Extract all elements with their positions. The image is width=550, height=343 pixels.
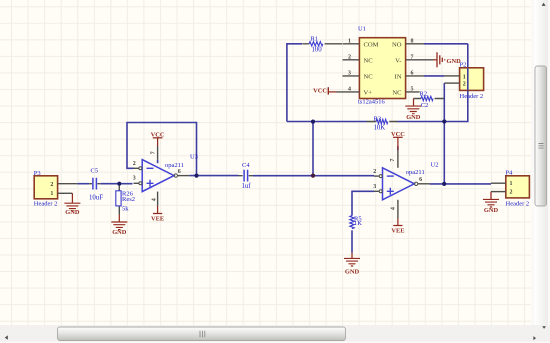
svg-text:C4: C4 (242, 162, 250, 169)
svg-text:Header 2: Header 2 (506, 200, 530, 207)
svg-text:VCC: VCC (313, 88, 327, 95)
svg-text:ts12a4516: ts12a4516 (358, 99, 385, 106)
svg-text:5: 5 (411, 87, 414, 93)
junction feedback net at x=444 (442, 119, 446, 123)
resistor R1 (302, 35, 342, 53)
svg-text:7: 7 (151, 151, 157, 154)
wire R5 bottom to GND (351, 230, 353, 252)
svg-text:GND: GND (484, 207, 499, 214)
svg-text:7: 7 (390, 159, 396, 162)
resistor R26 (116, 186, 135, 215)
scrollbar arrow left (5, 335, 8, 339)
wire feedback net y=122 right part (398, 44, 468, 122)
svg-text:6: 6 (178, 169, 181, 175)
bottom white strip (0, 342, 550, 343)
svg-text:R3: R3 (374, 115, 382, 122)
svg-text:1: 1 (50, 191, 53, 197)
svg-text:U3: U3 (190, 153, 198, 160)
svg-text:6: 6 (419, 177, 422, 183)
svg-text:U1: U1 (358, 26, 366, 33)
svg-text:2: 2 (373, 169, 376, 175)
svg-text:Header 2: Header 2 (460, 93, 484, 100)
svg-text:100: 100 (312, 47, 323, 54)
ground at R2 (405, 99, 428, 122)
resistor R3 (367, 115, 398, 131)
svg-text:NC: NC (392, 90, 402, 97)
svg-text:GND: GND (112, 229, 127, 236)
svg-text:R1: R1 (311, 35, 319, 42)
svg-text:IN: IN (395, 74, 402, 81)
horizontal scrollbar (0, 325, 550, 343)
svg-text:2: 2 (133, 161, 136, 167)
junction C5 R26 node (117, 182, 121, 186)
svg-text:2: 2 (348, 55, 351, 61)
power port VEE at U2 (391, 218, 404, 234)
svg-text:C5: C5 (91, 168, 99, 175)
svg-text:VCC: VCC (391, 131, 405, 138)
wire feedback net y=122 left part (287, 121, 367, 123)
op-amp U2 (373, 146, 438, 218)
svg-text:1K: 1K (354, 220, 362, 227)
wire U2 pin3 to R5 (352, 191, 374, 215)
svg-text:4: 4 (348, 87, 351, 93)
capacitor C5 (89, 168, 103, 202)
wire over P2 from pin8 vertical (467, 68, 469, 91)
svg-text:COM: COM (364, 42, 379, 49)
svg-text:2: 2 (510, 190, 513, 196)
svg-text:10K: 10K (374, 125, 386, 132)
svg-text:V-: V- (395, 58, 401, 65)
svg-text:VCC: VCC (151, 132, 165, 139)
header P4 (491, 170, 529, 208)
wire U2 output to P4 pin1 (430, 183, 491, 185)
svg-text:10uF: 10uF (89, 194, 103, 201)
svg-text:VEE: VEE (151, 216, 164, 223)
svg-text:1: 1 (510, 181, 513, 187)
svg-text:2: 2 (463, 81, 466, 87)
svg-text:GND: GND (406, 114, 421, 121)
wire vertical junction x=313 (312, 122, 314, 176)
svg-text:GND: GND (447, 58, 462, 65)
ground at R5 (344, 253, 360, 276)
wire P2 pin2 down through R2 to U2 output (443, 83, 445, 184)
resistor R2 (414, 90, 445, 100)
scrollbar arrow up (542, 3, 546, 6)
svg-text:4: 4 (390, 207, 396, 210)
junction U2 output (442, 182, 446, 186)
svg-text:1: 1 (463, 74, 466, 80)
svg-text:P4: P4 (506, 170, 514, 177)
capacitor C4 (239, 162, 254, 190)
wire U3 feedback loop (127, 123, 197, 176)
svg-text:NO: NO (392, 42, 402, 49)
power port VEE at U3 (151, 206, 164, 223)
ground at P4 pin2 (483, 192, 499, 215)
svg-text:6: 6 (411, 71, 414, 77)
scrollbar arrow down (542, 326, 546, 328)
svg-text:1uf: 1uf (242, 183, 252, 190)
svg-text:U2: U2 (431, 162, 439, 169)
junction U2 inverting input node (311, 174, 315, 178)
svg-text:3: 3 (348, 71, 351, 77)
wire input node left of R1 (287, 44, 302, 122)
svg-text:2: 2 (50, 182, 53, 188)
svg-text:7: 7 (411, 55, 414, 61)
op-amp U3 (133, 146, 198, 206)
svg-text:R2: R2 (420, 90, 428, 97)
scrollbar arrow right (533, 336, 536, 340)
header P3 (34, 170, 78, 207)
svg-text:Header 2: Header 2 (34, 201, 58, 208)
power port VCC at U3 (151, 132, 165, 147)
svg-text:V+: V+ (364, 90, 373, 97)
svg-text:C2: C2 (421, 102, 429, 109)
power port VCC at IC pin4 (313, 87, 336, 95)
power port GND at IC pin7 (rotated earth) (434, 52, 462, 67)
junction U3 output feedback (194, 174, 198, 178)
svg-text:1: 1 (348, 39, 351, 45)
vertical scrollbar (531, 0, 550, 325)
power port VCC at U2 (391, 131, 405, 150)
svg-text:opa211: opa211 (165, 162, 184, 169)
wire C4 to U2 pin2 (253, 175, 374, 177)
ground at R26 (111, 215, 127, 236)
svg-text:NC: NC (364, 74, 374, 81)
junction feedback net at x=313 (311, 120, 315, 124)
resistor R5 (350, 215, 362, 228)
ground at P3 pin1 (64, 193, 80, 216)
wire IC pin8 to vertical (424, 43, 468, 45)
svg-text:P3: P3 (34, 170, 41, 177)
svg-text:Res2: Res2 (122, 196, 135, 203)
svg-text:8: 8 (411, 39, 414, 45)
wire U3 output to C4 (189, 175, 238, 177)
svg-text:VEE: VEE (391, 227, 404, 234)
header P2 (444, 62, 484, 101)
svg-text:GND: GND (345, 269, 360, 276)
svg-text:NC: NC (364, 58, 374, 65)
wire C5 to U3 pin3 (100, 183, 132, 185)
svg-text:3: 3 (373, 184, 376, 190)
svg-text:5k: 5k (122, 206, 129, 213)
IC U1 ts12a4516 (337, 26, 434, 106)
svg-text:GND: GND (65, 209, 80, 216)
svg-text:4: 4 (151, 198, 157, 201)
wire IC pin6 to P2 pin1 (424, 75, 444, 77)
wire P3 pin2 to C5 (77, 183, 89, 185)
svg-text:opa211: opa211 (406, 169, 425, 176)
svg-text:3: 3 (133, 176, 136, 182)
